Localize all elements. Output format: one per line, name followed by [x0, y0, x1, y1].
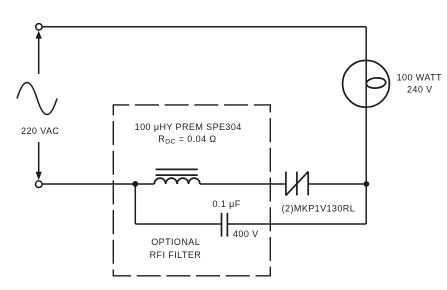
sidac bar 2: [296, 172, 298, 196]
sidac diagonal: [286, 171, 309, 195]
capacitor plate right: [226, 213, 228, 237]
svg-text:240 V: 240 V: [407, 85, 433, 95]
wire capacitor branch: up to right node: [365, 186, 367, 224]
node junction dot right: [364, 181, 370, 187]
svg-text:RDC = 0.04 Ω: RDC = 0.04 Ω: [158, 134, 216, 146]
svg-text:RFI FILTER: RFI FILTER: [150, 250, 202, 260]
wire capacitor branch: left horizontal: [135, 223, 221, 225]
wire sidac to right node: [308, 183, 366, 185]
wire bottom horizontal (source to inductor): [42, 183, 154, 185]
inductor core line 1: [156, 168, 198, 170]
sidac bar 3: [307, 172, 309, 196]
dashed box optional RFI filter: [113, 105, 270, 276]
capacitor 0.1 uF plate left: [221, 213, 223, 237]
sidac (2)MKP1V130RL: bar 1: [285, 172, 287, 196]
wire top horizontal: [43, 26, 367, 28]
terminal bottom-left (open circle): [36, 181, 43, 188]
lamp filament ellipse: [366, 77, 386, 89]
svg-text:220 VAC: 220 VAC: [21, 126, 59, 136]
inductor core line 2: [156, 174, 198, 176]
svg-text:0.1 μF: 0.1 μF: [212, 199, 240, 209]
terminal top-left (open circle): [36, 24, 42, 30]
svg-text:(2)MKP1V130RL: (2)MKP1V130RL: [282, 204, 356, 214]
svg-text:100 μHY PREM SPE304: 100 μHY PREM SPE304: [135, 122, 242, 132]
lamp 100 WATT 240 V (circle): [343, 60, 390, 107]
wire inductor to sidac: [200, 183, 286, 185]
inductor 100 uHY coil: [154, 178, 200, 184]
svg-text:100 WATT: 100 WATT: [397, 73, 442, 83]
ac source arrow down: [36, 142, 42, 180]
wire capacitor branch: down from left node: [134, 184, 136, 224]
node junction dot left: [132, 181, 138, 187]
ac source sine wave: [17, 83, 57, 115]
wire capacitor branch: right horizontal: [227, 223, 366, 225]
ac source arrow up: [36, 31, 42, 74]
wire right vertical (through lamp): [365, 27, 367, 184]
svg-text:OPTIONAL: OPTIONAL: [151, 237, 200, 247]
svg-text:400 V: 400 V: [233, 229, 259, 239]
